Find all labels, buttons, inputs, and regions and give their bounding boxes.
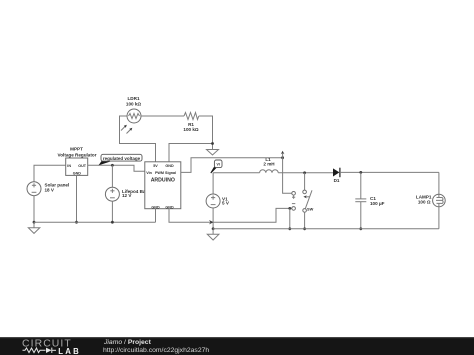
svg-text:L1: L1 bbox=[265, 157, 271, 162]
junction dot switch/bus bbox=[303, 227, 306, 230]
bottom bus right bbox=[213, 228, 439, 230]
arduino box U1 bbox=[145, 162, 181, 209]
wire D1 to lamp bbox=[340, 171, 439, 173]
svg-text:2 mH: 2 mH bbox=[263, 162, 275, 167]
svg-text:Voltage Regulator: Voltage Regulator bbox=[58, 153, 97, 158]
svg-text:LAMP1: LAMP1 bbox=[416, 195, 432, 200]
logo zigzag resistor bbox=[23, 348, 46, 353]
svg-text:R1: R1 bbox=[188, 122, 194, 127]
wire switch node down bbox=[304, 173, 306, 190]
bottom bus left bbox=[34, 221, 156, 223]
wire arduino GND-left to bus bbox=[155, 209, 157, 223]
wire PWM to switch control bbox=[181, 158, 283, 173]
wire solar bottom to bus bbox=[33, 196, 35, 223]
wire V1 bottom bbox=[212, 208, 214, 229]
capacitor C1 bbox=[355, 199, 366, 202]
junction dot regulator gnd/bus bbox=[75, 221, 78, 224]
svg-text:OUT: OUT bbox=[78, 164, 87, 168]
svg-text:GND: GND bbox=[165, 164, 174, 168]
lamp LAMP1 bbox=[433, 194, 446, 207]
svg-text:SW: SW bbox=[307, 206, 314, 211]
svg-text:http://circuitlab.com/c22gjxh2: http://circuitlab.com/c22gjxh2as27h bbox=[103, 347, 209, 354]
wire LDR left to 5V pin bbox=[120, 116, 156, 162]
junction dot V1/bus bbox=[212, 227, 215, 230]
junction dot node R1/GND bbox=[211, 142, 214, 145]
svg-text:D1: D1 bbox=[334, 178, 340, 183]
wire R1 to ground node bbox=[199, 116, 213, 150]
wire C1 top bbox=[360, 172, 362, 199]
flag regulated voltage bbox=[99, 154, 143, 165]
voltage regulator box U-MPPT bbox=[66, 158, 88, 175]
source V1 bbox=[206, 194, 220, 208]
svg-text:VI: VI bbox=[217, 163, 220, 167]
wire GND pin to R1 node bbox=[169, 144, 213, 162]
wire switch bottom to bus bbox=[304, 212, 306, 229]
svg-text:GND: GND bbox=[165, 205, 174, 209]
svg-text:GND: GND bbox=[73, 172, 82, 176]
svg-text:18 V: 18 V bbox=[45, 187, 55, 192]
resistor R1 bbox=[184, 113, 199, 120]
photoresistor LDR1 bbox=[121, 109, 141, 134]
svg-text:LDR1: LDR1 bbox=[128, 96, 140, 101]
svg-text:100 Ω: 100 Ω bbox=[418, 199, 431, 204]
svg-text:IN: IN bbox=[67, 164, 71, 168]
wire regulator GND down bbox=[76, 175, 78, 222]
logo diode bbox=[46, 348, 52, 353]
junction dot PWM node bbox=[281, 156, 284, 159]
wire C1 bottom to bus bbox=[360, 202, 362, 229]
junction dot switch minus bbox=[288, 207, 291, 210]
svg-text:100 µF: 100 µF bbox=[370, 201, 385, 206]
source Solar panel bbox=[27, 182, 41, 196]
wire switch minus node down bbox=[289, 208, 291, 228]
junction dot battery/bus bbox=[111, 221, 114, 224]
svg-text:Vin: Vin bbox=[146, 171, 152, 175]
svg-text:5 V: 5 V bbox=[222, 201, 230, 206]
wire V1 node to inductor bbox=[213, 172, 260, 174]
node V1 top / wire to L1 bbox=[212, 173, 214, 194]
flag probe VI bbox=[211, 160, 222, 173]
footer bar bbox=[0, 337, 474, 355]
ground (bottom left) bbox=[28, 222, 40, 233]
svg-text:5V: 5V bbox=[153, 164, 158, 168]
wire to lamp down bbox=[438, 172, 440, 194]
svg-text:PWM Signal: PWM Signal bbox=[155, 171, 176, 175]
ground (top, below R1) bbox=[207, 150, 219, 156]
wire battery top bbox=[111, 165, 113, 187]
svg-text:ARDUINO: ARDUINO bbox=[151, 178, 175, 184]
junction dot switch node bbox=[303, 171, 306, 174]
svg-text:LAB: LAB bbox=[58, 347, 81, 355]
wire battery bottom to bus bbox=[111, 201, 113, 222]
svg-text:C1: C1 bbox=[370, 196, 376, 201]
junction dot regulated node bbox=[111, 164, 114, 167]
junction dot C1/bus bbox=[359, 227, 362, 230]
wire LDR1 to R1 bbox=[141, 115, 184, 117]
junction dot solar/bus bbox=[33, 221, 36, 224]
svg-text:100 kΩ: 100 kΩ bbox=[126, 102, 141, 107]
wire arduino GND-right to switch minus bbox=[169, 208, 292, 222]
svg-text:Solar panel: Solar panel bbox=[45, 182, 70, 187]
ground (center bottom) bbox=[207, 229, 219, 240]
source LiFePO4 battery bbox=[105, 187, 119, 201]
probe arrow stub bbox=[281, 151, 285, 158]
svg-text:100 kΩ: 100 kΩ bbox=[183, 127, 198, 132]
junction dot minus/bus bbox=[288, 227, 291, 230]
wire solar to IN bbox=[34, 165, 66, 181]
svg-text:12 V: 12 V bbox=[122, 193, 132, 198]
inductor L1 bbox=[260, 170, 279, 173]
current arrow at V1 gnd bbox=[209, 220, 214, 224]
wire control down to switch plus bbox=[283, 158, 292, 194]
switch SW (voltage controlled) bbox=[292, 190, 312, 212]
junction dot C1 top bbox=[359, 171, 362, 174]
wire L1 to D1 bbox=[278, 172, 333, 174]
wire lamp bottom bbox=[438, 207, 440, 229]
wire OUT to Vin bbox=[88, 165, 145, 171]
svg-text:MPPT: MPPT bbox=[70, 147, 83, 152]
diode D1 bbox=[333, 168, 340, 178]
svg-text:regulated voltage: regulated voltage bbox=[103, 156, 141, 161]
svg-text:Jiamo / Project: Jiamo / Project bbox=[103, 339, 152, 346]
